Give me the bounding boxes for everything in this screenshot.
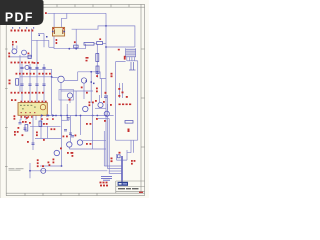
label red in box [128,129,130,133]
wire: transformer bottom lead [53,36,55,49]
capacitor bars below IC [19,123,35,145]
wire: top-left h y=33.5 [38,33,44,35]
transistor Q6 [67,142,72,147]
sub-box around Q5 [59,90,74,101]
wire: bus vertical x=107.4 [106,104,108,169]
node dot 12 [48,115,50,117]
wire: vertical x=80.5 [80,116,82,136]
wire: heavy bus drop to connector [121,156,123,185]
title block line 3 [116,190,145,192]
wire: driver v x=70.5 [70,116,72,143]
wire: right-mid v x=99.5 [99,95,101,102]
wire: bottom-right bus h y=168.5 [107,168,121,170]
border top outer [6,3,145,5]
wire: AC input top rail [47,13,106,166]
resistor R vertical left [16,79,19,86]
wire: x=76.2 drop [75,29,77,49]
transistor Q10 [83,106,88,111]
label red pair left of box [111,73,113,75]
label red box column [118,88,128,98]
optocoupler U3 [58,76,64,82]
resistor R x=41 [39,121,42,127]
wire: below-IC h y=126.3 [30,125,61,127]
wire: vref branch y=78.5 [20,69,52,115]
node dot 10 [29,170,31,172]
gray note text bottom-left [9,168,24,170]
node dot 9 [51,76,53,78]
labels red extra below IC [14,115,56,143]
label row under badge [11,30,34,32]
border right outer [144,4,146,195]
wire: opto feedback run y=71.8 [78,72,106,79]
resistor R x=33 [25,125,28,132]
wire: opto bottom corner [61,83,93,116]
node dot 17 [68,48,70,50]
border bottom outer [6,195,145,197]
title block line 1 [116,180,145,182]
blue specks above label row [12,27,34,28]
resistor R aux [74,45,78,48]
node dot 6 [75,115,77,117]
label red D3 [99,38,101,40]
wire: aux winding loop [62,13,67,27]
border tick left 3 [5,127,8,129]
wire: vertical x=91.2 [90,72,92,103]
resistor R snubber vertical [96,54,99,62]
transistor Q2 [22,50,27,55]
IC pin numbers top [21,101,47,103]
wire: below-IC v x=41 [40,116,42,139]
junction dots [29,25,107,172]
wire: stub below IC x=20 [19,120,21,123]
wire: cluster link y=47.3 [49,46,54,48]
title text [118,188,139,189]
node dot 14 [66,115,68,117]
transistor Q5 [67,93,72,98]
node dot 18 [75,48,77,50]
label row y=73.5 group2 [39,73,51,75]
wire: cap column x=37 [36,40,38,102]
wire: snubber branch [106,46,135,48]
wire: left cluster v x=31.6 [31,29,33,57]
label red ladder top [118,49,120,51]
wire: second top rail y=29.2/25.9 [72,26,135,47]
wire: vertical x=101.4 [100,79,102,99]
resistor R top row [84,43,94,46]
wire: right-mid h y=108.3 [95,107,106,109]
capacitor bars above Q6 [71,136,74,137]
wire: cap column x=30 [29,64,31,103]
wire: cap column x=44 [43,64,45,103]
wire: vertical x=97.3 [96,44,98,78]
border top inner [6,6,145,8]
wire: vertical x=76.1 [75,91,77,116]
border left [5,4,7,195]
capacitor C bars column x=22 [20,67,45,85]
diode D1 [41,114,44,116]
border right inner [140,4,142,193]
label red Q1 pairs [12,41,17,45]
sheet border frame [5,4,145,195]
label red Q3 [34,62,36,64]
node dot 13 [55,115,57,117]
border tick right 1 [141,48,145,50]
wire: driver v x=61.5 [61,116,63,167]
connector P1 bottom rails [101,177,112,181]
node dot 1 [105,25,107,27]
wire: vertical x=92.6 [92,103,94,149]
wire: bottom-right comp h y=160.1 [117,150,128,160]
comp small x=116.5 [118,155,121,158]
label red rail end [45,12,47,14]
transistor Q1 [12,49,17,54]
connector comb stubs [127,57,138,61]
border tick top 2 [74,4,76,7]
node dot 4 [96,71,98,73]
border bottom inner [6,192,145,194]
transformer T1 [52,27,65,36]
label red snubber [86,57,89,59]
capacitor bars mid cluster [64,130,72,135]
node dot 16 [96,115,98,117]
wire: segment y=120.3 [62,119,70,121]
label row y=62 [11,62,34,64]
label red ladder tall [124,56,126,60]
diode D input [28,55,31,58]
labels red right-mid [89,88,112,122]
node dot 7 [92,115,94,117]
node dot 3 [90,71,92,73]
border tick right 3 [141,146,145,148]
labels red above bottom rail x=72 [72,152,74,157]
wire: left cluster h y=40.3 [32,40,49,47]
border tick left 2 [5,88,8,90]
transistor Q9 lead [83,83,85,99]
transistor Q8 [54,150,59,155]
border tick left 4 [5,166,8,168]
resistor R snubber2 vertical [96,66,99,74]
transistor Q7 [77,140,82,145]
page left edge shade [0,0,1,198]
capacitor bars below bus [67,118,70,119]
wire: cap column x=22 [21,64,23,103]
wire: below-IC v x=33 [32,115,34,150]
border tick left 1 [5,48,8,50]
wire: bus vertical x=104.3 [103,131,105,166]
label row y=73.5 group1 [16,73,35,75]
wire: bottom of transformer row y=48.7 [54,43,106,48]
label red snubber2 [86,60,88,62]
inductor L1 round [41,168,46,173]
connector ladder J2 [118,48,136,59]
label red Q9 a [81,87,83,89]
label red below snubber2 [96,75,98,77]
wire: bottom-right bus h y=173.5 [109,173,122,175]
label red L1 [42,165,44,167]
border tick top 3 [92,4,94,7]
label red transformer bottom pair [56,39,58,41]
wire: right box drop x=131 [130,140,132,153]
node dot 5 [60,115,62,117]
node dot 2 [105,46,107,48]
label red column x=37.5 [37,159,39,167]
wire: top-left v x=44 [43,34,45,48]
wire: left cluster h input y=56.9 [9,56,32,58]
title block logo [118,182,128,186]
IC pin numbers bottom [21,116,54,120]
wire: bottom-right bus h y=171 [109,170,122,172]
wire: long bottom rail y=170.8 [30,170,107,172]
label red pair below Q10 [86,123,88,125]
wire: Q1 top leads [13,46,17,50]
title block line 2 [116,186,145,188]
border tick top 5 [128,4,130,7]
op-amp U2b [104,111,109,116]
title red rev [139,192,143,193]
label row y=90 [11,92,44,94]
border tick bottom 2 [42,193,44,195]
wire: right sub-box right edge [116,61,138,140]
transistor Q9 [81,78,86,83]
labels red bottom-right [111,152,136,165]
wire: below-IC h y=138.5 [35,138,61,140]
border tick top 1 [56,4,58,7]
border tick bottom 5 [96,193,98,195]
wire: right sub-box left edge [116,62,126,141]
blue specks feedback row [86,80,95,84]
wire: v x=30 bottom [29,163,31,178]
wire: right-mid v x=107.5 [107,95,109,111]
page background [0,0,149,198]
label red aux [74,41,76,43]
wire: left v x=20 long [19,55,21,92]
labels red connector rows [100,182,109,187]
wire: bottom-right bus h y=166 [104,165,122,167]
wire: bottom h y=166 [40,165,62,167]
border tick bottom 1 [24,193,26,195]
wire: mid bus y=115.5 [47,115,113,117]
wire: below-IC v x=47.4 [46,126,48,138]
label row y=53 left [8,53,10,58]
wire: bus vertical x=109.2 [108,119,110,174]
transistor Q3 [25,65,29,69]
wire: in-box verticals [120,83,123,98]
small block below comb [129,62,136,70]
labels red mid-bottom [48,135,92,167]
transistor Q5 lead [69,98,71,103]
node dot 11 [61,165,63,167]
wire: vertical x=67.2 [66,104,68,120]
node dot 8 [105,115,107,117]
wire: opto right lead [64,72,78,81]
wire: h y=149 to long V [69,147,106,149]
label red box row [119,104,132,106]
wire: opto left lead [52,77,58,79]
svg-text:PDF: PDF [5,11,34,25]
diode D3 input [97,42,103,45]
wire: IC bottom pin leads [21,115,36,120]
border tick right 2 [141,97,145,99]
logo glyphs [119,183,122,185]
border tick bottom 3 [60,193,62,195]
op-amp U2a [98,102,103,107]
label red row above IC [11,99,16,101]
wire: right box drop x=133.4 [127,140,133,153]
label red left resistor [9,80,11,82]
label red Q5 [69,99,71,101]
capacitor bars right-mid [104,96,107,97]
diode D2 [47,114,50,116]
title block left edge [115,181,117,193]
wire: right-mid h y=118.5 [98,118,109,120]
diode D4 [52,114,55,116]
PDF badge [0,0,44,25]
label red D input [28,53,30,55]
border tick bottom 4 [78,193,80,195]
blue specks top-left cluster [39,35,48,38]
capacitor in box [125,121,133,124]
label red cluster a [14,117,38,136]
wire: h y=140.3 to long V [83,139,106,141]
border tick top 4 [110,4,112,7]
label red Q9 b [86,92,88,94]
node dot 15 [80,115,82,117]
